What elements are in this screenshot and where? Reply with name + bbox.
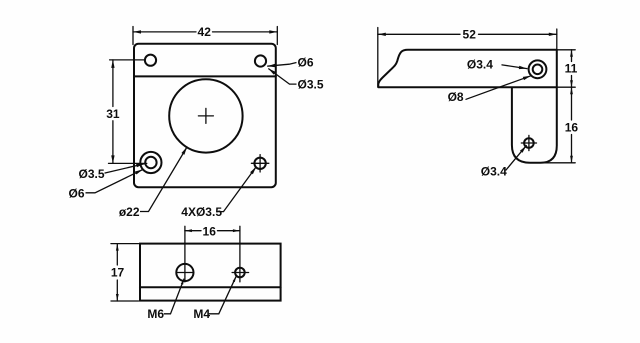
center cross of O22 <box>198 115 213 117</box>
dimension 42 line <box>133 31 196 33</box>
side view boss circle O8 <box>529 60 547 78</box>
svg-text:M4: M4 <box>193 307 210 321</box>
label 4XO3.5 leader <box>217 167 257 212</box>
svg-text:42: 42 <box>198 25 212 39</box>
label O6 leader (top-right hole) <box>267 63 296 67</box>
svg-text:52: 52 <box>463 28 477 42</box>
label M6 leader <box>164 279 184 314</box>
dimension 17 extension lines <box>111 243 139 245</box>
side view horizontal arm outline <box>378 50 557 87</box>
svg-text:ø22: ø22 <box>119 205 140 219</box>
label O22 leader <box>140 147 187 212</box>
label M4 leader <box>209 276 237 314</box>
label O3.5 leader (top-right hole) <box>268 69 296 85</box>
svg-text:17: 17 <box>111 266 125 280</box>
front view plate outline <box>134 44 276 188</box>
label O3.5 leader (counterbore inner) <box>105 164 144 173</box>
bottom view step line <box>140 286 281 288</box>
hole M6 <box>176 264 193 281</box>
front view step line <box>134 75 276 77</box>
side view vertical arm outline <box>512 87 557 163</box>
bore circle O22 <box>169 79 242 152</box>
crosshair bottom-right hole <box>251 162 268 164</box>
label O3.4 bottom leader <box>506 146 526 170</box>
svg-text:Ø6: Ø6 <box>298 56 314 70</box>
label O8 leader <box>466 76 531 100</box>
svg-text:16: 16 <box>565 120 579 134</box>
dimension 31 line <box>112 60 114 107</box>
side view hole O3.4 top <box>533 65 543 75</box>
dimension 11 extension lines <box>557 49 575 51</box>
dimension 52 line <box>378 33 460 35</box>
svg-text:Ø3.4: Ø3.4 <box>467 58 493 72</box>
counterbore hole bottom-left inner O3.5 <box>145 157 156 168</box>
svg-text:4XØ3.5: 4XØ3.5 <box>181 205 222 219</box>
svg-text:Ø6: Ø6 <box>68 187 84 201</box>
hole top-left <box>145 55 156 66</box>
dimension 52 extension lines <box>377 28 379 88</box>
svg-text:Ø3.4: Ø3.4 <box>481 164 507 178</box>
hole M4 <box>235 268 245 278</box>
svg-text:M6: M6 <box>147 307 164 321</box>
svg-text:Ø3.5: Ø3.5 <box>78 167 104 181</box>
side view arm bottom edge <box>378 86 557 88</box>
svg-text:Ø8: Ø8 <box>448 90 464 104</box>
dimension 16 extension line bottom <box>530 162 575 164</box>
label O3.4 top leader <box>502 65 527 69</box>
hole top-right <box>255 55 266 66</box>
dimension 11 line <box>571 50 573 62</box>
side view hole O3.4 bottom <box>524 138 534 148</box>
svg-text:16: 16 <box>203 224 217 238</box>
hole bottom-right O3.5 <box>254 158 265 169</box>
dimension 16 bottom line <box>185 230 201 232</box>
svg-text:Ø3.5: Ø3.5 <box>298 77 324 91</box>
crosshair M6 <box>176 272 193 274</box>
dimension 16 line <box>571 87 573 120</box>
bottom view outline <box>140 244 281 301</box>
dimension 17 line <box>116 244 118 265</box>
svg-text:11: 11 <box>565 61 578 75</box>
svg-text:31: 31 <box>106 107 120 121</box>
dimension 31 extension lines <box>110 59 145 61</box>
label O6 leader (counterbore outer) <box>86 170 143 193</box>
dimension 42 extension lines <box>132 27 134 45</box>
dimension 16 bottom extension lines through holes <box>184 226 186 282</box>
crosshair bottom hole side view <box>521 142 536 144</box>
counterbore hole bottom-left outer O6 <box>140 152 161 173</box>
crosshair M4 <box>232 272 249 274</box>
